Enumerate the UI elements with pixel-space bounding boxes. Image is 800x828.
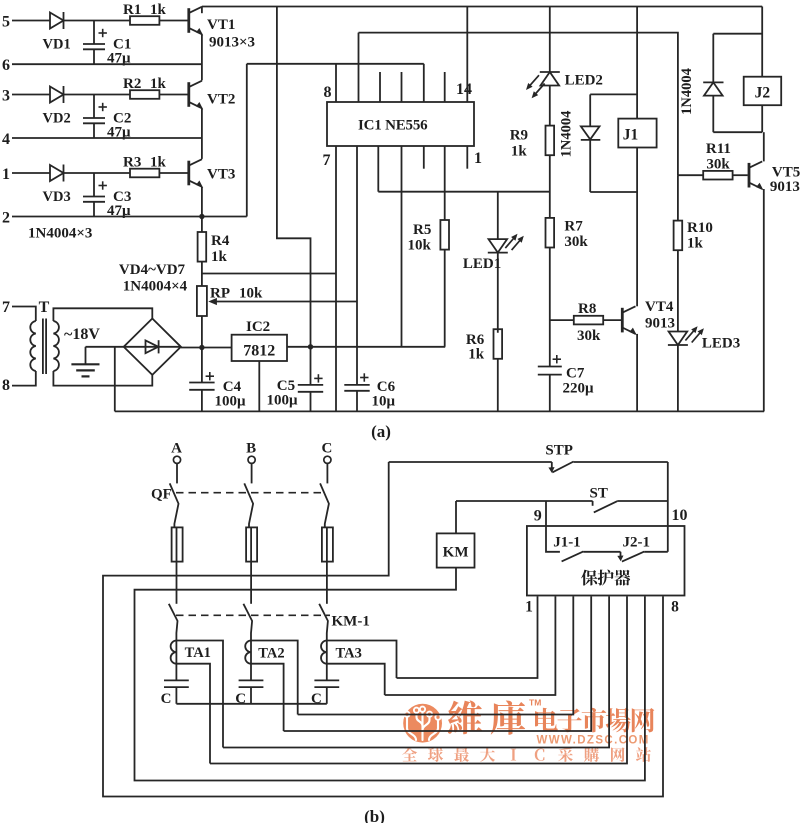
wire terminal 7 to primary <box>12 307 36 322</box>
transistor VT5 9013 <box>748 161 800 195</box>
wire R10 to LED3 <box>677 250 679 331</box>
svg-text:1k: 1k <box>150 76 167 92</box>
wire R9 to node <box>549 155 551 218</box>
svg-text:VT1: VT1 <box>207 17 235 33</box>
svg-text:R5: R5 <box>413 222 431 238</box>
svg-text:IC1 NE556: IC1 NE556 <box>358 118 428 134</box>
resistor R6 1k <box>466 329 502 362</box>
svg-text:VD3: VD3 <box>43 189 71 205</box>
wire node to R8 <box>550 319 574 321</box>
svg-text:10μ: 10μ <box>372 394 396 410</box>
svg-text:ST: ST <box>590 486 608 502</box>
relay J1 <box>618 119 656 148</box>
wire R4/RP tap to pin7 column <box>202 273 336 275</box>
capacitor C4 100u <box>189 348 246 412</box>
wire LED3 to ground <box>677 345 679 411</box>
wire R4 to RP <box>201 262 203 286</box>
wire R3 to VT3 <box>159 172 187 174</box>
wire J1 bottom <box>636 148 638 193</box>
wire column to R10 <box>677 175 679 220</box>
IC bottom pin to wiper and C6 <box>356 146 358 385</box>
wire node to R4 <box>201 217 203 233</box>
wire B to QF <box>251 463 253 483</box>
resistor R4 1k <box>198 232 230 265</box>
wire TA3 top tap <box>327 641 397 679</box>
wire LED2 to R9 <box>549 86 551 126</box>
svg-text:STP: STP <box>545 443 573 459</box>
diode VD2 <box>43 86 71 127</box>
svg-text:1k: 1k <box>687 236 704 252</box>
wire pin378 horizontal to R9/R7 node <box>378 191 550 193</box>
potentiometer RP 10k <box>197 286 263 317</box>
wire A to QF <box>176 463 178 483</box>
svg-text:R8: R8 <box>578 301 596 317</box>
capacitor C7 220u <box>538 355 594 411</box>
resistor R3 1k <box>123 155 167 178</box>
wire VD2 to R2 <box>64 94 131 96</box>
svg-text:R7: R7 <box>564 219 583 235</box>
wire R5 to +12V line <box>444 250 446 347</box>
wire second loop left <box>135 568 645 781</box>
svg-text:R2: R2 <box>123 76 141 92</box>
wire IC2 output <box>287 346 445 348</box>
wire protector pin 1 <box>397 596 538 678</box>
wire secondary bottom to bridge <box>53 371 152 386</box>
wire RP to bridge output node <box>201 316 203 348</box>
wire bridge output to IC2 <box>181 347 232 349</box>
svg-text:R10: R10 <box>687 220 713 236</box>
watermark logo circle <box>403 704 442 743</box>
svg-text:9: 9 <box>534 508 542 525</box>
wire VT2 emitter to line 4 to VT3 collector <box>201 108 203 159</box>
wire VT5 collector up <box>763 132 765 161</box>
svg-text:7: 7 <box>2 299 10 316</box>
svg-text:1: 1 <box>2 166 10 183</box>
svg-text:30k: 30k <box>706 157 730 173</box>
watermark text 维库 <box>448 700 525 734</box>
svg-text:C: C <box>321 441 332 457</box>
transistor VT3 9013 <box>187 159 203 188</box>
wire diode bottom branch <box>590 191 637 193</box>
terminal phase B <box>246 441 256 464</box>
transistor VT4 9013 <box>621 299 675 335</box>
protector box <box>527 526 685 596</box>
svg-text:8: 8 <box>671 599 679 616</box>
wire line 6 <box>12 63 202 65</box>
svg-text:7: 7 <box>323 152 331 169</box>
fuse B <box>246 527 257 561</box>
svg-text:10k: 10k <box>408 238 432 254</box>
svg-text:R3: R3 <box>123 155 141 171</box>
LED1 <box>463 192 524 333</box>
switch QF blade A <box>170 483 179 527</box>
svg-text:30k: 30k <box>577 328 601 344</box>
svg-text:30k: 30k <box>564 234 588 250</box>
svg-text:WWW.DZSC.COM: WWW.DZSC.COM <box>537 735 650 747</box>
fuse C <box>322 527 333 561</box>
svg-text:10k: 10k <box>239 286 263 302</box>
IC top pin stub x444.7 <box>444 72 446 102</box>
LED2 <box>526 72 603 98</box>
svg-text:7812: 7812 <box>243 343 275 360</box>
svg-text:QF: QF <box>151 487 172 503</box>
svg-text:T: T <box>39 299 50 316</box>
IC bottom pin x444.7 to R5 <box>444 146 446 220</box>
svg-text:R11: R11 <box>706 141 731 157</box>
svg-text:2: 2 <box>2 209 10 226</box>
svg-text:1N4004×3: 1N4004×3 <box>28 226 92 242</box>
watermark text 电子市场网 <box>535 708 654 733</box>
transformer secondary coil <box>53 321 59 371</box>
svg-text:1N4004×4: 1N4004×4 <box>123 279 188 295</box>
resistor R8 30k <box>574 301 603 344</box>
svg-text:A: A <box>171 441 182 457</box>
wire +12V riser to top <box>277 7 311 347</box>
capacitor C2 47u <box>83 95 131 141</box>
terminal phase A <box>171 441 182 464</box>
svg-text:10: 10 <box>672 507 688 524</box>
wire protector pin 5 <box>223 596 609 747</box>
svg-text:TA2: TA2 <box>258 646 284 662</box>
wire top rail corner to J2 <box>761 7 763 77</box>
svg-text:1k: 1k <box>211 249 228 265</box>
svg-text:RP: RP <box>210 286 230 302</box>
wire protector pin 3 <box>298 596 574 714</box>
contact KM-1 blade A <box>169 604 178 641</box>
diode 1N4004 at J1 <box>559 94 601 192</box>
capacitor C5 100u <box>267 347 324 412</box>
current transformer TA2 coil <box>245 641 251 664</box>
wire ST left to KM top <box>455 501 457 533</box>
wire secondary top to bridge <box>53 308 152 321</box>
wire TA2 top tap <box>251 641 298 715</box>
svg-text:~18V: ~18V <box>64 326 100 343</box>
wire line 2 <box>12 216 202 218</box>
switch STP <box>389 443 668 473</box>
wire top rail to LED2 <box>549 7 551 73</box>
wire R8 to VT4 base <box>603 319 621 321</box>
wire ground node down <box>114 347 116 412</box>
svg-text:VT2: VT2 <box>207 92 235 108</box>
capacitor C6 10u <box>344 373 395 411</box>
wire line 3 <box>12 94 50 96</box>
IC bottom pin x401.5 <box>401 146 403 347</box>
transformer T primary coil <box>30 321 36 371</box>
svg-text:VD2: VD2 <box>43 111 71 127</box>
IC top pin x358.5 <box>358 33 360 102</box>
wire fuse B down <box>250 562 252 604</box>
svg-text:TA1: TA1 <box>185 645 211 661</box>
resistor R5 10k <box>408 220 450 254</box>
bridge rectifier VD4-VD7 <box>124 319 181 375</box>
IC bottom pin stub x423.8 <box>423 146 425 169</box>
wire pin 10 inner <box>667 526 669 552</box>
svg-text:B: B <box>246 441 256 457</box>
svg-text:J1-1: J1-1 <box>553 535 581 551</box>
IC1 NE556 <box>327 102 474 146</box>
svg-text:KM: KM <box>443 545 469 561</box>
svg-text:100μ: 100μ <box>267 393 299 409</box>
contactor coil KM <box>437 533 475 567</box>
capacitor C3 47u <box>83 173 131 219</box>
wire VT3 emitter to node <box>201 187 203 217</box>
svg-text:TA3: TA3 <box>336 646 362 662</box>
wire primary to terminal 8 <box>12 371 36 386</box>
junction node +12V <box>308 344 313 349</box>
svg-text:8: 8 <box>2 377 10 394</box>
svg-text:R1: R1 <box>123 2 141 18</box>
svg-text:6: 6 <box>2 57 10 74</box>
svg-text:1: 1 <box>525 599 533 616</box>
fuse A <box>172 527 183 561</box>
wire riser x246.8 <box>246 64 248 217</box>
wire TA1 bottom tap <box>176 664 210 764</box>
wire TA2 bottom tap <box>251 664 284 731</box>
wire fuse C down <box>326 562 328 604</box>
svg-text:(a): (a) <box>371 422 391 441</box>
wire diode top branch J2 <box>713 33 762 35</box>
wire top rail to J1 <box>636 7 638 119</box>
svg-text:LED3: LED3 <box>702 336 740 352</box>
svg-text:IC2: IC2 <box>246 319 270 335</box>
svg-text:VT3: VT3 <box>207 167 235 183</box>
IC bottom pin stub x467.3 <box>466 146 468 169</box>
svg-text:KM-1: KM-1 <box>332 614 370 630</box>
capacitor C phase B <box>235 680 263 706</box>
junction node VT3 emitter / R4 <box>199 214 204 219</box>
IC top pin stub x401.5 <box>401 72 403 102</box>
IC top pin x467.3 to rail <box>466 7 468 103</box>
svg-text:C: C <box>161 691 172 707</box>
svg-text:1k: 1k <box>511 144 528 160</box>
svg-text:VD1: VD1 <box>43 37 71 53</box>
diode 1N4004 at J2 <box>679 34 723 133</box>
wire TA3 bottom tap <box>327 664 385 695</box>
wire protector pin 6 <box>210 596 627 763</box>
transistor VT1 9013 <box>187 7 203 36</box>
contact KM-1 blade B <box>243 604 252 641</box>
resistor R2 1k <box>123 76 167 99</box>
wire ST junction pin9 riser <box>545 500 547 502</box>
wire R2 to VT2 <box>159 94 187 96</box>
transistor VT2 9013 <box>187 81 203 110</box>
wire VT1 collector to top rail <box>201 7 203 14</box>
wire R7 to R8 node <box>549 248 551 367</box>
terminal phase C <box>321 441 332 464</box>
svg-text:1: 1 <box>474 150 482 167</box>
watermark text 全球最大IC采购网站 <box>402 747 651 762</box>
IC top pin x336 <box>335 64 337 102</box>
contact J2-1 <box>617 535 668 562</box>
wire diode top branch <box>590 93 637 95</box>
svg-text:14: 14 <box>456 81 472 98</box>
svg-text:9013: 9013 <box>645 316 675 332</box>
switch QF blade B <box>244 483 253 527</box>
resistor R11 30k <box>703 141 732 180</box>
svg-text:VT4: VT4 <box>645 299 674 315</box>
resistor R10 1k <box>674 220 713 252</box>
ground bottom rail <box>115 410 764 412</box>
svg-text:R4: R4 <box>211 233 230 249</box>
wire pin 9 <box>546 501 560 552</box>
transformer core <box>42 319 44 375</box>
wire VT1 emitter to line 6 to VT2 collector <box>201 34 203 80</box>
svg-text:1k: 1k <box>150 155 167 171</box>
wire C to QF <box>326 463 328 483</box>
wire VT4 collector up to J1 <box>636 192 638 306</box>
svg-text:VD4~VD7: VD4~VD7 <box>119 262 186 278</box>
switch QF blade C <box>320 483 329 527</box>
wire line 1 <box>12 172 50 174</box>
svg-text:TM: TM <box>529 698 541 708</box>
svg-text:J1: J1 <box>623 127 639 144</box>
capacitor C phase A <box>161 680 189 706</box>
wire protector pin 2 <box>385 596 556 695</box>
wire VT4 emitter to ground <box>636 334 638 412</box>
wire node to riser <box>202 216 247 218</box>
wire outer loop left <box>103 462 663 797</box>
wire to R11 <box>678 174 703 176</box>
resistor R7 30k <box>546 218 589 250</box>
wire line 5 <box>12 20 50 22</box>
svg-text:9013×3: 9013×3 <box>209 35 255 51</box>
wire R11 to VT5 base <box>733 174 748 176</box>
wire capacitor common <box>176 703 326 705</box>
rail from IC to VT5 drive <box>359 33 678 176</box>
wire R1 to VT1 <box>159 20 187 22</box>
svg-text:LED2: LED2 <box>565 73 603 89</box>
svg-text:LED1: LED1 <box>463 256 501 272</box>
top +12V rail <box>202 6 762 8</box>
LED3 <box>668 326 740 351</box>
current transformer TA3 coil <box>321 641 327 664</box>
label protector 保护器 <box>581 570 630 586</box>
svg-text:9013: 9013 <box>770 179 800 195</box>
wire line 4 <box>12 137 202 139</box>
RP wiper arrow <box>208 298 357 305</box>
capacitor C phase C <box>311 680 339 706</box>
IC top pin x423.8 <box>423 64 425 102</box>
contact KM-1 blade C <box>319 604 328 641</box>
IC bottom pin x378.3 <box>377 146 379 192</box>
ground <box>71 347 123 377</box>
svg-text:4: 4 <box>2 131 10 148</box>
svg-text:1k: 1k <box>150 2 167 18</box>
wire J2 bottom <box>761 105 763 132</box>
wire VD3 to R3 <box>64 172 131 174</box>
svg-text:3: 3 <box>2 87 10 104</box>
rail y63.8 to IC pins <box>247 63 424 65</box>
diode VD3 <box>43 165 71 206</box>
wire STP down to pin10 <box>667 462 669 526</box>
wire VT5 emitter to ground <box>763 189 765 411</box>
regulator IC2 7812 <box>232 319 287 361</box>
dashed link QF <box>176 492 325 494</box>
svg-text:J2: J2 <box>755 85 771 102</box>
svg-text:8: 8 <box>324 84 332 101</box>
svg-text:220μ: 220μ <box>563 381 595 397</box>
svg-text:5: 5 <box>2 13 10 30</box>
contact J1-1 <box>553 535 620 562</box>
switch ST <box>456 486 668 513</box>
svg-text:C7: C7 <box>566 366 585 382</box>
wire R6 to ground <box>497 359 499 412</box>
IC bottom pin 7 column to ground <box>335 146 337 411</box>
svg-text:100μ: 100μ <box>215 394 247 410</box>
svg-text:(b): (b) <box>364 807 385 823</box>
svg-text:J2-1: J2-1 <box>623 535 651 551</box>
svg-text:1N4004: 1N4004 <box>559 111 575 158</box>
IC top pin stub x380 <box>379 72 381 102</box>
wire IC2 ground pin <box>258 361 260 411</box>
resistor R1 1k <box>123 2 167 25</box>
junction node RP/C4/7812-in <box>199 345 204 350</box>
wire diode bottom branch J2 <box>713 131 762 133</box>
diode VD1 <box>43 12 71 53</box>
relay J2 <box>744 77 782 106</box>
capacitor C1 47u <box>83 21 131 67</box>
svg-text:1N4004: 1N4004 <box>679 68 695 115</box>
svg-text:1k: 1k <box>468 347 485 363</box>
svg-text:R9: R9 <box>510 128 528 144</box>
wire fuse A down <box>176 562 178 604</box>
resistor R9 1k <box>510 126 554 160</box>
current transformer TA1 coil <box>171 641 177 664</box>
wire TA1 top tap <box>176 641 223 748</box>
dashed link KM-1 <box>176 614 330 616</box>
wire VD1 to R1 <box>64 20 131 22</box>
wire protector pin 4 <box>284 596 592 731</box>
